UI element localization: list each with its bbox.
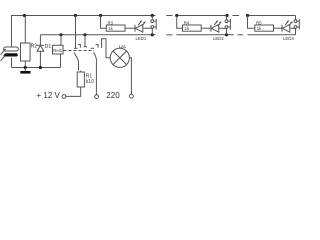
module 2: wire input <box>177 16 183 29</box>
svg-text:220: 220 <box>106 91 120 100</box>
module 3: connector top stub <box>295 16 297 20</box>
wire top bus solid left segment <box>12 16 156 48</box>
module 2: wire to LED <box>201 27 211 29</box>
svg-text:R4: R4 <box>184 21 190 26</box>
wire Rel1 top lead <box>60 35 62 46</box>
node dot bottom bus x152.3 <box>151 33 154 36</box>
sensor transducer arrows <box>1 49 6 61</box>
ground <box>20 68 30 74</box>
module 2: LED2 diode <box>211 24 219 32</box>
svg-text:1k: 1k <box>257 26 262 31</box>
module 2: connector circles <box>225 20 228 29</box>
module 2: LED2 arrows <box>214 21 221 26</box>
wire R2 top lead <box>24 16 26 44</box>
diode D1 <box>37 35 45 68</box>
wire R1 top lead <box>80 71 82 73</box>
svg-text:R5: R5 <box>256 21 262 26</box>
wire bottom left bus <box>12 67 61 69</box>
svg-text:1k: 1k <box>108 26 113 31</box>
node dot top bus x152.3 <box>151 14 154 17</box>
wire R2 bottom lead <box>24 61 26 68</box>
svg-text:LED3: LED3 <box>283 36 294 41</box>
node dot bottom-left x25 <box>24 66 27 69</box>
svg-text:LED1: LED1 <box>136 36 147 41</box>
node dot bottom bus x61.3 <box>59 33 62 36</box>
resistor R1 <box>77 72 84 87</box>
module 3: wire LED to connector <box>290 28 296 35</box>
wire top bus middle segment <box>177 15 229 17</box>
module 2: connector bracket <box>228 19 230 30</box>
svg-text:R3: R3 <box>108 21 114 26</box>
svg-text:+ 12 V: + 12 V <box>37 91 61 100</box>
module 1: connector circles <box>151 20 154 29</box>
relay coil Rel1 <box>53 45 64 54</box>
module 1: wire to LED <box>125 27 135 29</box>
node dot bottom bus x226 <box>225 33 228 36</box>
module 1: resistor R3 <box>106 25 125 31</box>
sensor transducer plates <box>4 47 19 57</box>
svg-text:1k: 1k <box>185 26 190 31</box>
module 3: wire input <box>248 16 255 29</box>
module 1: connector bracket <box>154 19 156 30</box>
module 3: connector circles <box>294 20 297 29</box>
terminal 220 left <box>95 95 99 99</box>
node dot top bus x24.5 <box>23 14 26 17</box>
wire R1 bottom lead to +12V <box>66 87 81 96</box>
module 3: wire to LED <box>274 27 283 29</box>
node dot bottom bus x85 <box>83 33 86 36</box>
node dot top bus x176.75 <box>175 14 178 17</box>
svg-text:LED2: LED2 <box>213 36 224 41</box>
wire bottom bus middle segment <box>176 34 234 36</box>
module 3: LED3 arrows <box>285 21 292 26</box>
module 1: wire LED to connector <box>143 28 153 35</box>
module 3: connector bracket <box>297 19 299 30</box>
module 3: resistor R5 <box>255 25 274 31</box>
wire bottom bus dash 1 <box>166 34 172 36</box>
module 1: wire input <box>101 16 107 29</box>
node dot bottom-left x40.5 <box>39 66 42 69</box>
wire sensor bottom lead <box>11 58 13 68</box>
wire bottom bus dash 2 <box>238 34 244 36</box>
wire bottom bus right segment <box>248 34 296 36</box>
module 1: LED1 diode <box>135 24 143 32</box>
svg-text:Rel1: Rel1 <box>53 48 62 53</box>
svg-text:La1: La1 <box>119 44 127 49</box>
svg-text:D1: D1 <box>45 44 52 50</box>
wire lamp feed bridge <box>102 39 111 58</box>
relay contact S1 <box>74 16 81 71</box>
svg-text:k10: k10 <box>86 79 94 85</box>
resistor R2 <box>21 43 31 61</box>
module 2: connector top stub <box>226 16 228 20</box>
svg-text:R1: R1 <box>86 74 93 80</box>
wire top bus dash 1 <box>166 15 172 17</box>
wire Rel1 bottom lead <box>60 54 62 68</box>
svg-text:R2: R2 <box>31 44 38 50</box>
wire bottom bus left segment <box>41 34 156 36</box>
module 2: resistor R4 <box>183 25 202 31</box>
module 2: wire LED to connector <box>219 28 227 35</box>
relay contact S2 <box>84 35 99 95</box>
node dot top bus x227 <box>225 14 228 17</box>
module 1: LED1 arrows <box>138 21 145 26</box>
wire lamp right lead <box>129 58 131 94</box>
module 1: connector top stub <box>151 16 153 20</box>
node dot top bus x100.5 <box>99 14 102 17</box>
lamp La1 <box>110 48 129 67</box>
module 3: LED3 diode <box>282 24 290 32</box>
wire top bus right segment <box>248 15 296 17</box>
relay mechanical link dashed <box>64 50 95 52</box>
terminal 220 right <box>130 94 134 98</box>
node dot top bus x247.5 <box>246 14 249 17</box>
node dot top bus x75 <box>74 14 77 17</box>
wire top bus dash 2 <box>233 15 240 17</box>
terminal +12V <box>62 95 66 99</box>
